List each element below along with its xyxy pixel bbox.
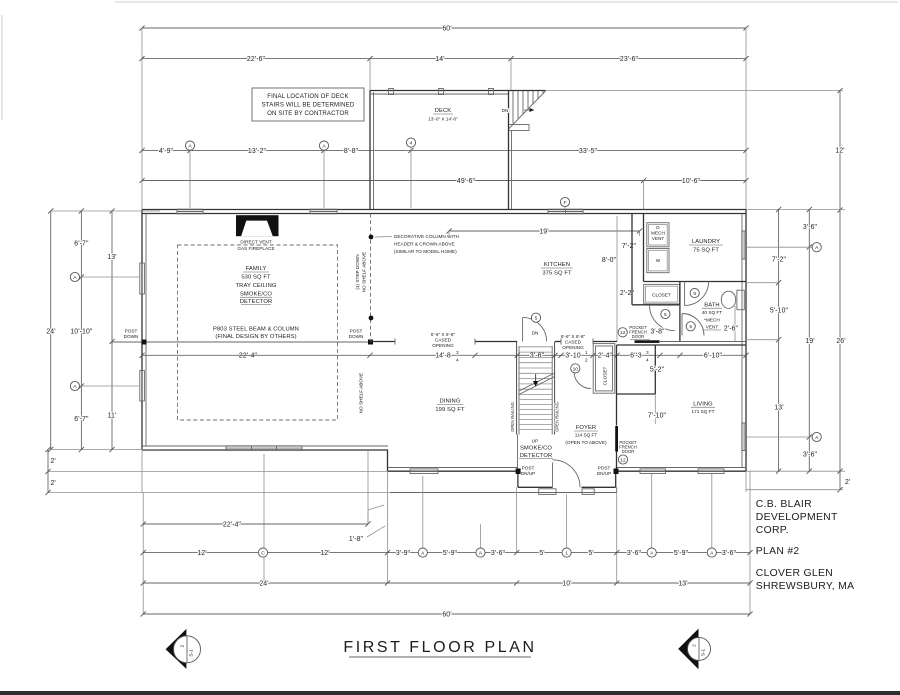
svg-text:24': 24' <box>259 580 268 587</box>
svg-text:2: 2 <box>692 644 697 647</box>
cased opening wall stub west <box>370 341 395 343</box>
svg-text:6'-10": 6'-10" <box>704 353 723 360</box>
right dim col 26 <box>839 210 841 490</box>
svg-text:3'-6": 3'-6" <box>803 452 818 459</box>
svg-text:6'-7": 6'-7" <box>74 416 89 423</box>
left wall extension down <box>141 450 143 493</box>
window leader A lower <box>80 385 141 387</box>
svg-text:5': 5' <box>588 550 593 557</box>
svg-text:13': 13' <box>774 405 783 412</box>
svg-text:10'-6": 10'-6" <box>682 178 701 185</box>
svg-text:1: 1 <box>565 551 568 557</box>
window living south 2 <box>698 469 724 474</box>
svg-text:OPENING: OPENING <box>432 343 454 348</box>
dim line 60 ft overall top <box>142 27 746 29</box>
west exterior wall <box>141 210 143 451</box>
svg-text:(FINAL DESIGN BY OTHERS): (FINAL DESIGN BY OTHERS) <box>215 334 296 340</box>
closet by laundry <box>644 284 680 304</box>
living north wall <box>617 344 747 346</box>
svg-text:CASED: CASED <box>435 338 452 343</box>
window laundry east <box>742 231 747 259</box>
svg-text:3'-6": 3'-6" <box>722 550 737 557</box>
window family north 2 <box>310 209 337 214</box>
svg-text:530 SQ FT: 530 SQ FT <box>241 275 271 281</box>
svg-text:FINAL LOCATION OF DECK: FINAL LOCATION OF DECK <box>267 93 349 100</box>
stair direction arrow <box>535 374 537 383</box>
extension deck stair up <box>510 59 512 91</box>
dim 22-4 bottom <box>143 523 368 525</box>
porch front edge <box>390 492 617 494</box>
svg-text:12: 12 <box>620 330 626 336</box>
window dining south <box>410 469 438 474</box>
ext lines bottom <box>142 493 144 615</box>
laundry west wall <box>643 214 645 282</box>
entry alcove west wall <box>517 471 519 487</box>
svg-text:6'-7": 6'-7" <box>74 241 89 248</box>
svg-text:ON SITE BY CONTRACTOR: ON SITE BY CONTRACTOR <box>267 110 349 117</box>
decorative column dot upper <box>369 235 374 240</box>
family south wall <box>142 445 388 447</box>
svg-text:7'-2": 7'-2" <box>772 257 787 264</box>
steel beam center line <box>112 341 370 343</box>
extension line left x142 <box>141 28 143 209</box>
page left edge line <box>1 15 3 120</box>
extension lines to top wall <box>189 150 191 208</box>
svg-text:114 SQ FT: 114 SQ FT <box>575 433 598 438</box>
svg-text:11': 11' <box>108 413 117 420</box>
marker 12 foyer <box>618 455 627 464</box>
svg-text:3'-9": 3'-9" <box>396 550 411 557</box>
svg-text:3: 3 <box>646 350 649 355</box>
hall-living divider <box>654 345 656 394</box>
svg-text:TRAY CEILING: TRAY CEILING <box>236 283 277 289</box>
svg-text:DOWN: DOWN <box>124 334 139 339</box>
dim col 13 11 <box>111 211 113 450</box>
svg-text:22'-6": 22'-6" <box>247 56 266 63</box>
svg-text:POST: POST <box>598 466 611 471</box>
front wall living side <box>616 467 746 469</box>
entry door leaf <box>552 463 554 488</box>
svg-text:4: 4 <box>410 141 413 147</box>
dashed open wall family-kitchen <box>370 214 372 342</box>
window leader A right lower <box>746 436 812 438</box>
svg-text:5: 5 <box>689 324 692 330</box>
svg-text:8'-8": 8'-8" <box>344 148 359 155</box>
entry step <box>539 489 556 495</box>
svg-text:171 SQ FT: 171 SQ FT <box>692 409 715 414</box>
svg-text:NO SHELF ABOVE: NO SHELF ABOVE <box>362 252 367 293</box>
svg-text:(1) STEP DOWN: (1) STEP DOWN <box>355 254 360 289</box>
svg-text:DETECTOR: DETECTOR <box>520 453 553 459</box>
page top edge line <box>115 1 898 3</box>
svg-text:6'-6" X 6'-8": 6'-6" X 6'-8" <box>561 334 586 339</box>
svg-text:5: 5 <box>664 312 667 318</box>
kitchen dim 19 ft <box>449 230 640 232</box>
svg-text:DOWN: DOWN <box>349 334 364 339</box>
svg-text:2: 2 <box>180 644 185 647</box>
svg-text:3'-8": 3'-8" <box>650 329 665 336</box>
window living east <box>742 423 747 451</box>
deck west wall <box>369 91 371 211</box>
svg-text:14'-8: 14'-8 <box>435 353 451 360</box>
right 2ft lines <box>746 489 843 491</box>
window marker circle A <box>319 141 328 150</box>
post down left symbol <box>142 340 147 345</box>
svg-text:KITCHEN: KITCHEN <box>544 262 570 268</box>
wall stub stair to closet <box>555 341 561 343</box>
svg-text:10: 10 <box>573 366 579 372</box>
svg-text:1: 1 <box>585 350 588 355</box>
window leader A right upper <box>746 246 812 248</box>
pocket french door foyer-living <box>615 426 618 452</box>
svg-text:10': 10' <box>562 580 571 587</box>
svg-text:VENT: VENT <box>652 236 665 241</box>
svg-text:DN: DN <box>502 108 509 113</box>
svg-text:12': 12' <box>320 550 329 557</box>
hall south wall <box>617 393 656 395</box>
laundry south wall <box>644 281 747 283</box>
svg-text:22'-4": 22'-4" <box>239 353 258 360</box>
svg-text:HEADER & CROWN ABOVE: HEADER & CROWN ABOVE <box>394 242 455 247</box>
svg-text:199 SQ FT: 199 SQ FT <box>435 407 465 413</box>
svg-text:3'-6": 3'-6" <box>530 353 545 360</box>
fireplace direct vent <box>236 215 279 236</box>
svg-text:*MECH: *MECH <box>704 318 720 323</box>
svg-text:8'-0": 8'-0" <box>602 257 617 264</box>
stair treads upper <box>519 346 552 348</box>
svg-text:DECK: DECK <box>435 108 452 114</box>
svg-text:23'-6": 23'-6" <box>620 56 639 63</box>
svg-text:CASED: CASED <box>565 340 582 345</box>
svg-text:5'-9": 5'-9" <box>443 550 458 557</box>
dim line 24 10 13 <box>143 582 750 584</box>
svg-text:FIRST FLOOR PLAN: FIRST FLOOR PLAN <box>343 639 536 656</box>
dim line 4-9 / 13-2 / 8-8 / 33-5 <box>142 149 746 151</box>
svg-text:22'-4": 22'-4" <box>223 521 242 528</box>
svg-text:19': 19' <box>539 228 548 235</box>
svg-text:CLOSET: CLOSET <box>652 293 671 298</box>
note box final deck stair location <box>252 88 364 121</box>
extension line right x746 <box>745 28 747 209</box>
tray ceiling dashed outline <box>178 245 338 420</box>
svg-text:3'-6": 3'-6" <box>803 224 818 231</box>
svg-text:DIRECT VENT: DIRECT VENT <box>240 240 271 245</box>
svg-text:33'-5": 33'-5" <box>579 148 598 155</box>
right dim reference top <box>746 209 845 211</box>
foyer closet box <box>593 344 615 394</box>
foyer east wall lower <box>616 452 618 472</box>
extension deck west wall up <box>369 59 371 90</box>
svg-text:OPENING: OPENING <box>562 345 584 350</box>
window leader A upper <box>80 276 141 278</box>
svg-text:POST: POST <box>125 329 138 334</box>
bottom black strip <box>0 691 900 695</box>
svg-text:SHREWSBURY, MA: SHREWSBURY, MA <box>756 581 855 592</box>
closet door arc 10 <box>574 372 591 389</box>
right dim col 3-6 19 3-6 <box>808 210 810 472</box>
svg-text:DETECTOR: DETECTOR <box>240 299 273 305</box>
svg-text:C.B. BLAIR: C.B. BLAIR <box>756 499 812 510</box>
stair west rail <box>516 342 518 435</box>
svg-text:12': 12' <box>197 550 206 557</box>
kitchen east dim 8-0 <box>616 216 618 342</box>
svg-text:(OPEN TO ABOVE): (OPEN TO ABOVE) <box>565 440 607 445</box>
svg-text:POST: POST <box>522 466 535 471</box>
bath door upper arc 5 <box>685 282 709 306</box>
svg-text:FAMILY: FAMILY <box>246 266 267 272</box>
closet door arc 5 <box>650 305 675 330</box>
svg-text:14': 14' <box>435 56 444 63</box>
svg-text:10'-10": 10'-10" <box>70 329 93 336</box>
svg-text:3: 3 <box>456 350 459 355</box>
decorative column note <box>375 236 392 239</box>
svg-text:2': 2' <box>51 480 56 487</box>
extension laundry wall up <box>643 181 645 210</box>
window family south triple <box>226 446 302 451</box>
left dim top reference line <box>51 210 160 212</box>
svg-text:DINING: DINING <box>440 399 461 405</box>
marker circle F leader <box>564 206 566 210</box>
svg-text:6'-3: 6'-3 <box>630 353 642 360</box>
entry alcove east wall <box>615 471 617 487</box>
north exterior wall <box>142 209 746 211</box>
svg-text:7'-10": 7'-10" <box>648 413 667 420</box>
svg-text:5'-2": 5'-2" <box>650 367 665 374</box>
left dim bottom reference line <box>51 449 160 451</box>
svg-text:2: 2 <box>585 358 588 363</box>
svg-text:CLOSET: CLOSET <box>603 366 608 385</box>
window family north 1 <box>177 209 203 214</box>
window living south 1 <box>640 469 666 474</box>
deck dim 12 ft line <box>839 91 841 211</box>
svg-text:MECH: MECH <box>651 231 665 236</box>
deck stairs landing <box>509 125 530 131</box>
svg-text:DN/UP: DN/UP <box>521 471 536 476</box>
toilet <box>721 291 735 308</box>
dim 24 ft vertical <box>50 211 52 450</box>
section marker left <box>166 629 187 669</box>
svg-text:1'-8": 1'-8" <box>349 536 364 543</box>
svg-text:13'-0" X 14'-0": 13'-0" X 14'-0" <box>428 117 458 122</box>
svg-text:OPEN RAILING: OPEN RAILING <box>510 402 515 432</box>
foyer east wall upper <box>616 345 618 426</box>
svg-text:5: 5 <box>693 291 696 297</box>
svg-text:5'-10": 5'-10" <box>770 308 789 315</box>
dim line 49-6 / 10-6 <box>142 180 746 182</box>
svg-text:375 SQ FT: 375 SQ FT <box>542 271 572 277</box>
svg-text:GAS FIREPLACE: GAS FIREPLACE <box>237 246 274 251</box>
svg-text:PLAN #2: PLAN #2 <box>756 546 800 557</box>
washer box <box>647 249 669 273</box>
svg-text:OPEN RAILING: OPEN RAILING <box>555 402 560 432</box>
svg-text:12: 12 <box>620 457 626 463</box>
svg-text:4'-9": 4'-9" <box>159 148 174 155</box>
svg-text:LIVING: LIVING <box>693 402 713 408</box>
window family west 2 <box>140 371 145 402</box>
svg-text:BATH: BATH <box>704 303 719 309</box>
deck rail post <box>489 89 494 95</box>
closet south wall <box>632 304 680 306</box>
svg-text:40 SQ FT: 40 SQ FT <box>702 310 722 315</box>
east exterior wall <box>745 210 747 472</box>
kitchen-mech wall <box>631 214 633 282</box>
svg-text:DOOR: DOOR <box>632 334 645 339</box>
deck dn arrow <box>524 109 534 111</box>
dim 2-6 bath <box>734 306 736 342</box>
dim line 60 bottom <box>143 613 750 615</box>
svg-text:2': 2' <box>845 479 850 486</box>
svg-text:FOYER: FOYER <box>576 425 596 431</box>
dim line 22-6 / 14 / 23-6 <box>142 58 746 60</box>
mech closet west wall lower <box>631 282 633 305</box>
svg-text:DOOR: DOOR <box>622 449 635 454</box>
cased opening wall stub east <box>474 339 476 345</box>
jog leader 1-8 <box>367 510 369 524</box>
window marker circle A <box>185 141 194 150</box>
svg-text:2': 2' <box>51 458 56 465</box>
svg-text:STAIRS WILL BE DETERMINED: STAIRS WILL BE DETERMINED <box>262 102 355 109</box>
deck rail post <box>389 89 394 95</box>
svg-text:13'-2": 13'-2" <box>248 148 267 155</box>
left 2ft dims <box>47 450 49 493</box>
svg-text:75 SQ FT: 75 SQ FT <box>693 248 719 254</box>
svg-text:LAUNDRY: LAUNDRY <box>692 239 720 245</box>
bath west wall <box>679 282 681 342</box>
deck rail post <box>439 89 444 95</box>
right dim col 7-2 5-10 13 <box>778 210 780 472</box>
bath door lower arc 5 <box>682 314 704 336</box>
svg-text:DEVELOPMENT: DEVELOPMENT <box>756 512 838 523</box>
svg-text:5: 5 <box>535 316 538 322</box>
svg-text:60': 60' <box>442 611 451 618</box>
family-dining jog wall <box>387 450 389 471</box>
dim 7-10 <box>654 394 656 424</box>
dim line windows row <box>143 552 750 554</box>
stair break diagonal <box>519 373 555 391</box>
svg-text:13': 13' <box>678 580 687 587</box>
svg-text:(SIMILAR TO MODEL HOME): (SIMILAR TO MODEL HOME) <box>394 249 457 254</box>
entry threshold <box>582 489 594 495</box>
svg-text:DN/UP: DN/UP <box>597 471 612 476</box>
svg-text:S-1: S-1 <box>701 648 706 656</box>
right dim reference bottom <box>746 470 845 472</box>
svg-text:5': 5' <box>539 550 544 557</box>
svg-text:SMOKE/CO: SMOKE/CO <box>520 446 552 452</box>
svg-text:60': 60' <box>442 26 451 33</box>
dryer box <box>647 223 669 247</box>
svg-text:24': 24' <box>46 329 55 336</box>
deck stairs diagonal <box>509 91 546 129</box>
stair rail extension to post <box>517 435 519 469</box>
svg-text:4: 4 <box>456 358 459 363</box>
svg-text:UP: UP <box>532 439 539 444</box>
french door F to deck <box>548 209 583 214</box>
svg-text:3'-6": 3'-6" <box>491 550 506 557</box>
deck dim 12 ft extension top <box>546 90 844 92</box>
deck stairs risers <box>512 91 514 124</box>
main interior dim line 14-8 3-6 3-10 2-4 6-3 6-10 <box>142 354 746 356</box>
svg-text:C: C <box>261 551 265 557</box>
decorative column dot lower <box>369 316 374 321</box>
entry door arc <box>553 460 581 488</box>
pocket french door label bath hall <box>618 328 627 337</box>
svg-text:2'-6": 2'-6" <box>724 326 739 333</box>
entry alcove back wall <box>518 486 553 488</box>
svg-text:7'-2": 7'-2" <box>622 243 637 250</box>
pocket door black bar bath hall <box>635 340 660 343</box>
svg-text:26': 26' <box>836 338 845 345</box>
svg-text:6'-6" X 6'-8": 6'-6" X 6'-8" <box>431 332 456 337</box>
svg-text:12': 12' <box>835 148 844 155</box>
stair east rail <box>554 342 556 435</box>
laundry 7-2 tick line <box>746 282 779 284</box>
stair treads lower <box>519 399 552 401</box>
window family west 1 <box>140 263 145 294</box>
svg-text:W: W <box>656 258 661 263</box>
svg-text:49'-6": 49'-6" <box>457 178 476 185</box>
basement door arc 5 at stair top <box>523 317 547 341</box>
svg-text:POST: POST <box>350 329 363 334</box>
svg-text:3'-6": 3'-6" <box>627 550 642 557</box>
svg-text:NO SHELF ABOVE: NO SHELF ABOVE <box>359 373 364 414</box>
svg-text:4: 4 <box>646 358 649 363</box>
svg-text:13': 13' <box>107 254 116 261</box>
svg-text:VENT: VENT <box>706 325 719 330</box>
section marker right <box>678 629 698 670</box>
svg-text:F: F <box>564 200 567 206</box>
dim col 6-7 10-10 6-7 <box>80 211 82 450</box>
svg-text:S-1: S-1 <box>189 649 194 657</box>
svg-text:CORP.: CORP. <box>756 525 789 536</box>
closet north wall stub <box>592 339 594 345</box>
svg-text:CLOVER GLEN: CLOVER GLEN <box>756 568 833 579</box>
door marker circle 4 <box>406 138 415 147</box>
svg-text:P803 STEEL BEAM & COLUMN: P803 STEEL BEAM & COLUMN <box>213 327 299 333</box>
svg-text:19': 19' <box>805 338 814 345</box>
svg-text:DN: DN <box>532 331 539 336</box>
svg-text:SMOKE/CO: SMOKE/CO <box>240 292 272 298</box>
post down right symbol <box>368 340 373 345</box>
svg-text:3'-10: 3'-10 <box>565 353 581 360</box>
deck north wall <box>370 90 546 92</box>
front wall dining-entry <box>388 467 518 469</box>
deck stairs east wall <box>508 91 510 210</box>
svg-text:2'-4": 2'-4" <box>598 353 613 360</box>
svg-text:5'-9": 5'-9" <box>674 550 689 557</box>
